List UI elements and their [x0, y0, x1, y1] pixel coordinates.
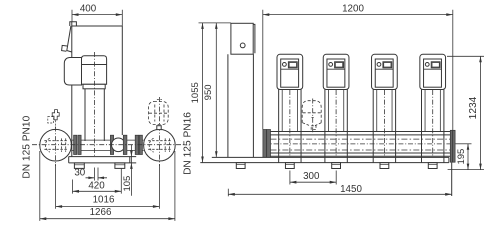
motor neck — [83, 84, 105, 89]
dim 1450 line — [228, 193, 451, 195]
base foot right — [115, 163, 125, 169]
pump 3 motor head — [372, 54, 398, 89]
pump 4 foot — [428, 163, 437, 169]
suction flange circle — [40, 129, 72, 161]
base foot left — [74, 163, 84, 169]
svg-text:30: 30 — [74, 167, 85, 178]
ext line cabinet top — [199, 22, 231, 24]
manifold left flange — [263, 130, 267, 158]
pipe axis extension — [456, 143, 472, 145]
manifold axis dash-dot — [264, 143, 456, 145]
dim 400 extension lines — [72, 10, 122, 26]
cabinet stand column — [228, 54, 254, 157]
flange pair A — [74, 135, 77, 154]
vessel axis dash-dot — [312, 99, 314, 134]
base plate side view — [69, 157, 137, 163]
dim 105 line — [130, 145, 132, 196]
dim 1234 top extension — [447, 55, 484, 57]
frame top edge — [72, 25, 123, 27]
svg-text:DN 125 PN16: DN 125 PN16 — [183, 112, 194, 175]
svg-text:400: 400 — [80, 3, 97, 14]
ball valve body — [112, 138, 126, 152]
frame rear edge — [121, 26, 123, 135]
pole top step — [70, 22, 77, 26]
svg-text:1016: 1016 — [93, 195, 115, 206]
dashed diaphragm vessel side view — [148, 102, 168, 125]
stand pole — [71, 22, 73, 157]
cabinet lock — [240, 43, 245, 48]
flange C — [123, 135, 127, 154]
dim 400 line — [72, 14, 122, 16]
svg-text:420: 420 — [88, 181, 105, 192]
dashed diaphragm vessel front view — [302, 101, 321, 123]
dim 1055 line — [202, 23, 204, 163]
pump 1 motor head — [277, 54, 303, 89]
suction circle bore dashed — [45, 138, 49, 152]
svg-text:1055: 1055 — [190, 82, 201, 103]
dim 1016 line — [56, 206, 160, 208]
dim 1234 line — [480, 56, 482, 169]
pump 2 column — [325, 90, 347, 163]
cabinet knob — [62, 45, 67, 51]
manifold body — [271, 132, 451, 157]
dim 300 line — [290, 181, 336, 183]
suction circle crosshair — [55, 127, 57, 167]
pump 2 motor head — [323, 54, 349, 89]
pump 1 column — [279, 90, 301, 163]
svg-text:300: 300 — [303, 171, 320, 182]
flange pair D — [135, 135, 139, 154]
pump 3 foot — [380, 163, 389, 169]
pump head side profile — [64, 58, 81, 86]
pump 4 column — [422, 90, 444, 163]
svg-text:DN 125 PN10: DN 125 PN10 — [21, 115, 32, 178]
control cabinet front view — [231, 23, 253, 54]
dim 30 lines — [86, 177, 108, 179]
motor side view — [82, 56, 107, 85]
svg-text:1450: 1450 — [340, 184, 362, 195]
motor cap seam — [82, 64, 107, 66]
svg-text:1266: 1266 — [90, 207, 112, 218]
dim 1266 line — [40, 218, 175, 220]
control cabinet side view — [67, 26, 72, 52]
svg-text:195: 195 — [456, 149, 467, 165]
svg-text:1200: 1200 — [342, 3, 364, 14]
suction pipe tube — [71, 140, 144, 150]
pump 1 foot — [285, 163, 294, 169]
pipe axis dash-dot — [32, 144, 185, 146]
ground extension line — [448, 169, 484, 171]
base rail front view — [200, 157, 451, 196]
discharge circle crosshair — [158, 97, 160, 166]
dim 420 line — [73, 190, 122, 192]
dim 1200 extension lines — [263, 10, 453, 132]
vessel connector block — [157, 126, 161, 130]
discharge flange circle — [144, 129, 176, 161]
manifold right flange — [450, 130, 452, 162]
cabinet column foot — [236, 163, 245, 169]
svg-text:950: 950 — [203, 84, 214, 100]
dim 950 line — [215, 23, 217, 157]
cabinet side sliver — [253, 24, 255, 53]
manifold hidden edges dashed — [271, 139, 451, 150]
flange B — [110, 135, 113, 154]
pump column side — [85, 89, 104, 141]
dim 1200 line — [263, 14, 453, 16]
dim 195 line — [467, 144, 469, 170]
discharge circle bore dashed — [149, 138, 153, 152]
pump 4 motor head — [420, 54, 446, 89]
pump 3 column — [373, 90, 395, 163]
pressure sensor symbol — [52, 110, 59, 120]
svg-text:1234: 1234 — [468, 96, 479, 119]
pump 2 foot — [332, 163, 341, 169]
pump axis dash-dot — [94, 52, 96, 157]
